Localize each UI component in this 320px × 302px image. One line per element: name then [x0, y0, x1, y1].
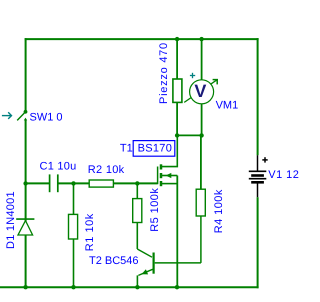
voltmeter VM1 arrowhead: [213, 79, 218, 84]
svg-text:VM1: VM1: [216, 99, 239, 111]
wire mid link: [177, 134, 202, 136]
wire top rail: [25, 38, 259, 40]
capacitor C1: [50, 174, 58, 192]
resistor Piezzo: [173, 79, 182, 102]
svg-text:T1: T1: [120, 142, 133, 154]
battery V1: [249, 155, 266, 197]
wire left rail mid: [25, 120, 27, 222]
svg-text:BS170: BS170: [138, 143, 173, 155]
wire bottom rail: [0, 286, 259, 288]
arrow T1 body: [166, 173, 172, 178]
svg-text:T2 BC546: T2 BC546: [89, 255, 139, 267]
wire right rail lower: [257, 197, 259, 288]
node bottom R1: [71, 285, 75, 289]
node junction gate/R5: [135, 181, 139, 185]
wire T1 drain lead: [162, 135, 178, 166]
label box BS170: [133, 141, 175, 157]
voltmeter plus sign: [190, 73, 195, 78]
wire left rail lower: [25, 235, 27, 287]
node mid VM/R4: [199, 133, 203, 137]
wire R2 to gate: [113, 182, 157, 184]
node top rail piezzo: [175, 37, 179, 41]
wire piezzo upper: [176, 39, 178, 79]
wire T1 source lead: [162, 183, 178, 185]
wire C1 to R2: [58, 182, 90, 184]
diode D1: [16, 219, 34, 235]
wire VM upper: [201, 39, 203, 80]
svg-text:D1 1N4001: D1 1N4001: [5, 191, 17, 249]
svg-text:C1 10u: C1 10u: [40, 161, 77, 173]
transistor T2 collector diagonal: [137, 249, 152, 257]
resistor R1: [69, 214, 78, 239]
transistor T1 channel bars: [160, 164, 163, 186]
wire piezzo lower: [176, 102, 178, 135]
wire base to R4: [200, 216, 202, 263]
node bottom T2 emitter: [135, 285, 139, 289]
wire R1 branch upper: [73, 183, 75, 214]
switch actuate arrow: [2, 112, 12, 119]
transistor T2 base bar: [153, 253, 155, 274]
wire left rail upper: [25, 38, 27, 110]
svg-text:SW1 0: SW1 0: [30, 111, 63, 123]
svg-text:V: V: [194, 81, 206, 101]
svg-text:Piezzo 470: Piezzo 470: [158, 42, 170, 104]
node bottom T1 source: [175, 285, 179, 289]
wire R5 branch upper: [136, 183, 138, 198]
node junction left/C1: [23, 181, 27, 185]
wire VM lower: [201, 104, 203, 136]
wire T2 emitter down: [136, 275, 138, 287]
node top rail VM: [199, 37, 203, 41]
transistor T1 MOSFET gate bar: [157, 167, 159, 185]
node bottom D1: [23, 285, 27, 289]
voltmeter VM1 circle: [190, 80, 214, 104]
wire T2 base: [155, 262, 201, 264]
wire R4 top: [200, 135, 202, 189]
resistor R2: [89, 180, 113, 187]
voltmeter VM1 arrow line: [184, 80, 217, 103]
arrow T2 emitter: [142, 269, 149, 274]
node junction R1 top: [71, 181, 75, 185]
svg-text:R2 10k: R2 10k: [88, 164, 125, 176]
battery plus sign: [262, 157, 267, 162]
wire right rail upper: [257, 38, 259, 155]
wire T1 body lead: [162, 175, 178, 177]
resistor R4: [196, 189, 205, 216]
svg-text:V1 12: V1 12: [268, 169, 299, 181]
switch SW1: [17, 110, 27, 121]
wire R5 to collector: [136, 223, 138, 250]
transistor T2 emitter diagonal: [138, 269, 152, 275]
wire T1 source down: [176, 176, 178, 288]
svg-text:R5 100k: R5 100k: [149, 188, 161, 232]
svg-text:R1 10k: R1 10k: [84, 213, 96, 251]
node mid piezzo/drain: [175, 133, 179, 137]
resistor R5: [133, 199, 142, 223]
wire R1 branch lower: [73, 239, 75, 287]
wire branch to C1: [26, 182, 50, 184]
svg-text:R4 100k: R4 100k: [213, 189, 225, 233]
